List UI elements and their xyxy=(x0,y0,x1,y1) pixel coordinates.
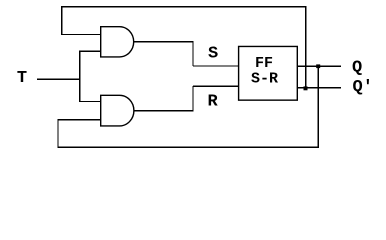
wire: Q' output xyxy=(297,87,341,89)
svg-text:R: R xyxy=(208,93,219,112)
wire: Q output xyxy=(297,65,341,67)
wire: R into FF xyxy=(193,85,239,87)
wire: T input xyxy=(37,78,80,80)
node: junction on Q' output xyxy=(304,86,308,90)
svg-text:Q: Q xyxy=(352,59,362,78)
wire: T branch vertical xyxy=(79,51,81,103)
wire: AND1 lower input (from T branch) xyxy=(80,50,102,52)
svg-text:Q': Q' xyxy=(353,78,373,97)
wire: top feedback left vertical xyxy=(61,7,63,35)
wire: G2 output xyxy=(134,110,194,112)
flip-flop U1: S-R FF box xyxy=(239,46,298,100)
node: junction on Q output xyxy=(316,64,320,68)
wire: top feedback right vertical (from Q') xyxy=(305,7,307,88)
wire: G1 output xyxy=(134,41,194,43)
wire: top feedback horizontal (Q' to AND1) xyxy=(61,6,306,8)
AND gate G2 xyxy=(101,95,134,126)
svg-text:S-R: S-R xyxy=(251,71,278,88)
wire: R jog vertical xyxy=(192,86,194,110)
svg-text:S: S xyxy=(208,45,218,64)
wire: AND2 upper input (from T branch) xyxy=(80,101,102,103)
wire: S into FF xyxy=(193,65,239,67)
wire: AND2 lower input (from bottom feedback) xyxy=(57,119,101,121)
wire: S jog vertical xyxy=(192,42,194,66)
AND gate G1 xyxy=(101,27,134,57)
wire: bottom feedback horizontal xyxy=(57,146,319,148)
svg-text:T: T xyxy=(17,69,27,88)
wire: bottom feedback left vertical xyxy=(57,120,59,147)
wire: AND1 upper input xyxy=(61,34,101,36)
wire: bottom feedback right vertical (from Q) xyxy=(317,66,319,147)
